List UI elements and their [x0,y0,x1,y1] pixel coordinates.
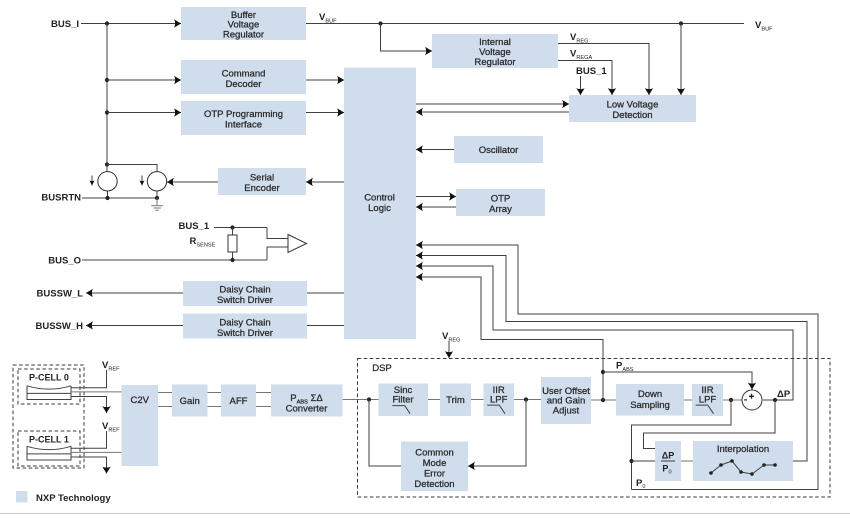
svg-text:Daisy Chain: Daisy Chain [219,317,270,328]
wire VREF to cell0 top plate [71,370,107,388]
svg-text:Decoder: Decoder [226,79,262,90]
svg-text:Command: Command [222,69,266,80]
wire comparator input plus [267,228,288,239]
block Daisy Chain Switch Driver H [183,314,307,339]
wire comparator input minus [267,247,288,260]
svg-text:OTP Programming: OTP Programming [204,109,283,120]
wire cell1 bottom plate to return [71,457,107,474]
wire Oscillator to control logic [416,149,454,151]
block Sinc Filter [379,384,429,417]
wire AFF to converter pair [256,393,271,407]
wire P0 to ratio box [632,400,732,490]
wire trim to IIR1 [471,399,484,401]
wire control logic to Serial Encoder [306,181,344,183]
wire VBUF rail [306,23,744,25]
current source I2 [147,172,166,191]
wire Command Decoder to control logic [306,79,344,81]
wire I2 to BUSRTN [156,191,158,198]
wire VBUF to Internal Voltage Regulator [381,24,433,52]
svg-text:BUSRTN: BUSRTN [41,193,81,204]
wire VREG stub into DSP [448,341,450,358]
wire current source feed [107,165,157,173]
svg-text:Common: Common [415,448,454,459]
wire to ground [156,198,158,205]
junction deltaP [773,398,777,402]
resistor RSENSE [228,235,237,252]
svg-text:Sampling: Sampling [630,400,670,411]
wire resistor bottom stub [232,252,234,260]
wire bus to Command Decoder [107,79,181,81]
wire sinc to trim [428,399,440,401]
svg-text:C2V: C2V [130,395,149,406]
junction BUS_1 sense top [230,225,234,229]
svg-text:Logic: Logic [368,203,391,214]
dashed box P-CELL 0 [18,369,80,404]
wire cell0 bottom plate to return [71,397,107,414]
svg-text:Serial: Serial [250,173,274,184]
wire down sampling to IIR2 [684,399,692,401]
svg-text:Regulator: Regulator [474,57,515,68]
dashed box DSP [358,359,831,498]
svg-text:Trim: Trim [446,395,465,406]
svg-text:LPF: LPF [699,394,717,405]
block Command Decoder [181,60,306,94]
svg-text:BUS_I: BUS_I [51,19,79,30]
block Low Voltage Detection [569,95,696,122]
block IIR LPF 1 [484,384,515,417]
wire cell1 sense to C2V [71,451,122,453]
junction BUSRTN I1 [105,196,109,200]
wire LVD to control logic [416,111,569,113]
junction bus to command decoder [105,78,109,82]
wire OTP Array to control logic [416,206,456,208]
block Common Mode Error Detection [401,442,468,492]
svg-text:BUS_1: BUS_1 [179,221,210,232]
junction BUSRTN I2 [155,196,159,200]
svg-text:Detection: Detection [414,479,454,490]
block OTP Array [456,189,545,216]
legend NXP technology swatch [16,491,28,503]
wire BUS_I to Buffer Voltage Regulator [81,23,181,25]
junction current source tee [105,162,109,166]
wire IIR2 to summing node [723,399,742,401]
wire converter to DSP sinc filter [343,399,379,401]
wire common mode feedback [468,400,526,467]
junction P0 tap [729,398,733,402]
block OTP Programming Interface [181,101,306,135]
svg-text:Regulator: Regulator [223,30,264,41]
wire IIR1 to user offset [514,399,541,401]
svg-text:Down: Down [638,389,662,400]
block User Offset and Gain Adjust [541,377,591,424]
block Oscillator [454,136,543,163]
block Control Logic [344,68,416,340]
wire OTP Programming Interface to control logic [306,112,344,114]
wire deltaP to ratio box [644,400,776,449]
wire cell0 sense to C2V [71,391,122,393]
svg-text:Encoder: Encoder [244,183,279,194]
svg-text:Control: Control [364,193,395,204]
wire VREG to LVD [558,44,649,96]
svg-text:Interpolation: Interpolation [717,444,769,455]
block PABS sigma-delta converter [271,385,343,417]
svg-text:Mode: Mode [423,458,447,469]
junction BUS_I bus top [105,21,109,25]
wire I1 to BUSRTN [107,191,109,198]
wire control logic to OTP Array [416,196,456,198]
block C2V [122,385,159,466]
svg-text:BUS_O: BUS_O [48,256,81,267]
wire control logic to daisy1 [307,292,344,294]
junction PABS branch [601,370,605,374]
wire BUS_1 sense top [214,227,267,229]
junction common mode tap [524,397,528,401]
wire PABS vertical [602,372,604,400]
svg-text:Adjust: Adjust [553,406,580,417]
current source I1 [98,172,117,191]
wire control logic to LVD [416,103,569,105]
current arrow I1 [91,176,93,186]
block Serial Encoder [218,168,306,195]
block Buffer Voltage Regulator [181,7,306,41]
svg-text:Converter: Converter [286,403,328,414]
bottom hairline [0,513,850,515]
junction common mode return [367,397,371,401]
wire deltaP output [763,399,775,401]
block Interpolation [693,441,793,481]
block Gain [172,385,208,417]
svg-text:Switch Driver: Switch Driver [217,328,273,339]
summing node [742,390,762,410]
junction VBUF to internal regulator [378,21,382,25]
comparator [288,235,307,253]
junction VBUF drop to LVD [679,21,683,25]
svg-text:Gain: Gain [180,396,200,407]
wire C2V to Gain pair [158,393,172,407]
svg-text:ΔP: ΔP [777,389,791,400]
svg-text:Low Voltage: Low Voltage [607,99,659,110]
svg-text:P-CELL 1: P-CELL 1 [29,434,69,444]
wire bus to OTP Programming Interface [107,112,181,114]
block IIR LPF 2 [692,384,723,416]
block Internal Voltage Regulator [432,34,558,68]
svg-text:Filter: Filter [392,394,413,405]
dashed box P-CELL 1 [18,431,80,466]
svg-text:NXP Technology: NXP Technology [36,493,111,504]
wire BUS_I vertical bus [106,24,108,165]
block Trim [440,384,471,417]
wire BUS_O [82,259,267,261]
junction BUS_O [230,258,234,262]
svg-text:DSP: DSP [372,363,392,374]
wire resistor top stub [232,228,234,236]
wire P0 into ratio box [632,460,656,462]
svg-text:Error: Error [424,469,445,480]
svg-text:BUSSW_H: BUSSW_H [35,321,83,332]
wire ratio to interpolation [681,460,693,462]
pressure cell 1 [27,446,71,460]
wire user offset to down sampling [591,399,616,401]
wire Gain to AFF pair [208,393,222,407]
junction PABS main [601,398,605,402]
svg-text:Oscillator: Oscillator [479,145,519,156]
dashed group P-CELL pair [13,365,84,468]
wire VREGA to LVD [558,61,612,96]
svg-text:Daisy Chain: Daisy Chain [219,285,270,296]
junction bus to OTP programming [105,110,109,114]
wire PABS to summing node [603,372,752,390]
current arrow I2 [141,176,143,186]
block Down Sampling [616,384,684,416]
wire deltaP feedback to control logic [416,266,793,400]
svg-text:AFF: AFF [230,396,248,407]
svg-text:OTP: OTP [491,194,511,205]
wire Serial Encoder to current source I2 [167,181,218,183]
wire bus to current source I1 [106,165,108,173]
block AFF [221,385,256,417]
wire VREF to cell1 top plate [71,431,107,448]
wire P0 feedback to control logic [416,245,818,490]
wire PABS feedback to control logic [416,277,603,372]
block Daisy Chain Switch Driver L [183,281,307,306]
svg-text:LPF: LPF [490,394,508,405]
ground [151,206,163,211]
wire interpolation feedback to control logic [416,256,807,462]
wire VBUF drop to Low Voltage Detection [680,24,682,96]
svg-text:P-CELL 0: P-CELL 0 [29,372,69,382]
wire BUSRTN [82,197,157,199]
svg-text:ΔP: ΔP [662,451,674,461]
svg-text:Interface: Interface [225,120,262,131]
pressure cell 0 [27,386,71,400]
svg-text:BUSSW_L: BUSSW_L [37,289,84,300]
wire BUS_1 stub to LVD [580,76,582,95]
wire daisy2 to BUSSW_H [86,325,183,327]
block deltaP over P0 [655,441,681,481]
svg-text:BUS_1: BUS_1 [576,66,607,77]
junction ratio input [629,459,633,463]
wire control logic to daisy2 [307,325,344,327]
svg-text:Switch Driver: Switch Driver [217,295,273,306]
wire daisy1 to BUSSW_L [86,292,183,294]
svg-text:Detection: Detection [612,110,652,121]
wire common mode output to input junction [369,400,401,467]
svg-text:Array: Array [489,204,512,215]
